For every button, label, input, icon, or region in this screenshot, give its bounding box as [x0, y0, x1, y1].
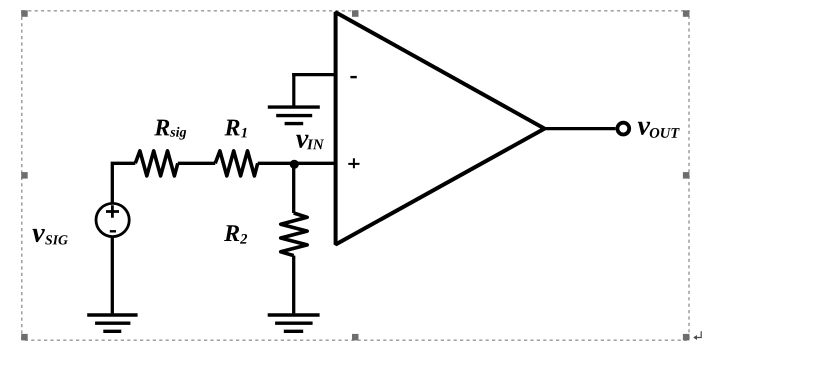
resistor Rsig	[135, 151, 178, 176]
wire op-amp output	[545, 127, 616, 130]
voltage source VSIG	[96, 203, 129, 236]
wire inverting input to ground	[292, 73, 295, 107]
label vSIG	[32, 229, 67, 245]
wire node to R2	[292, 164, 295, 213]
wire VSIG to ground	[111, 237, 114, 314]
op-amp non-inverting input mark +	[348, 158, 359, 168]
node vIN junction dot	[290, 160, 299, 169]
label vIN	[296, 135, 324, 150]
label Rsig	[154, 120, 186, 140]
voltage source minus mark	[110, 230, 116, 232]
resistor R2	[281, 213, 308, 256]
ground (below VSIG)	[87, 315, 137, 331]
wire Rsig to R1	[178, 162, 215, 165]
ground (below R2)	[268, 315, 320, 331]
op-amp U1	[336, 12, 545, 244]
label R2	[224, 225, 247, 243]
voltage source plus mark	[106, 205, 119, 218]
wire R2 to ground	[292, 256, 295, 314]
wire inverting input stub	[292, 73, 335, 76]
label vOUT	[638, 122, 680, 138]
wire vSIG source to Rsig	[111, 162, 136, 204]
label R1	[224, 120, 246, 138]
output terminal vOUT	[617, 123, 629, 135]
op-amp inverting input mark -	[350, 76, 356, 78]
wire R1 to op-amp	[258, 162, 336, 165]
ground (inverting input)	[268, 107, 320, 124]
resistor R1	[215, 151, 258, 176]
